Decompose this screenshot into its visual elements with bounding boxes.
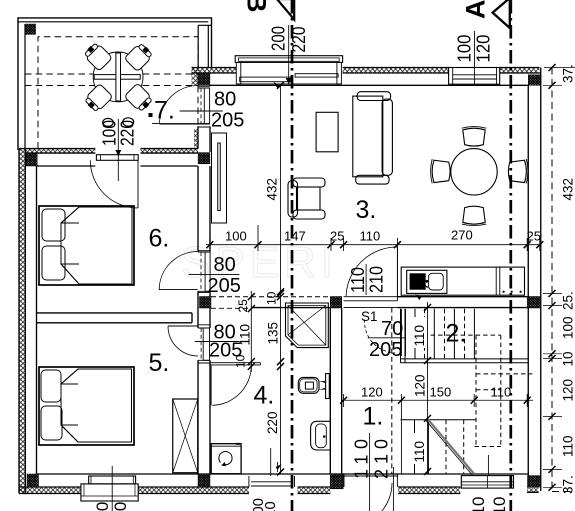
svg-text:110: 110 [348,267,368,293]
svg-text:4.: 4. [254,382,275,410]
hall dashed line [391,308,393,474]
bottom wall faces [37,473,529,475]
main interior chain line y=244.7 [206,244,541,246]
svg-text:100: 100 [455,35,475,63]
under-stair door 70/205 leaf [401,309,405,356]
left wall insulation hatch [19,149,25,494]
dining table round [451,149,497,195]
door/window fraction labels (horizontal) [208,89,404,362]
terrace balcony door 100/220 (room6) frame [96,155,138,161]
svg-text:S1: S1 [361,309,378,324]
section line B [291,0,294,511]
svg-text:120: 120 [413,374,428,397]
entrance door swing (outside) [348,483,392,511]
stair upper flight frame [401,309,406,363]
white knockouts for stair dim texts [409,317,425,348]
toilet [298,374,329,399]
vertical chain x=247 [250,291,252,372]
svg-text:135: 135 [266,322,281,345]
stair upper treads dashed [425,309,465,359]
svg-text:80: 80 [214,89,236,111]
terrace-room6 wall insulation hatch [25,149,95,154]
svg-text:110: 110 [412,441,427,463]
svg-text:5.: 5. [149,349,170,377]
svg-text:110: 110 [412,325,427,347]
stair upper treads solid [415,309,474,359]
bed room 6 [39,206,134,285]
section line A [509,0,512,511]
svg-text:A: A [461,0,491,19]
columns (dark) [26,73,541,489]
label arrows (small) [115,78,421,470]
living room interior top face [210,84,528,86]
wall living/hall: bathroom part (top dashed) [211,296,330,298]
svg-text:2.: 2. [446,320,467,348]
svg-text:110: 110 [238,324,253,346]
washing machine [211,443,241,474]
chain dims rotated small [234,291,428,462]
svg-text:110: 110 [491,385,512,400]
dining chairs [431,127,528,226]
terrace/room6 dividing wall faces [19,148,198,150]
terrace dashed floor edge rect [38,37,198,149]
bathroom door 80/205: wall stub, open leaf and swing [210,363,260,365]
top wall insulation hatch [19,68,539,494]
svg-text:220: 220 [289,27,309,53]
bed room 5 [39,367,134,445]
slider frames [236,62,241,84]
sofa [353,92,393,184]
svg-text:220: 220 [265,411,280,434]
svg-text:110: 110 [352,439,372,479]
column bottom-right [528,476,541,488]
terrace door 80/205 in spine wall [198,86,210,127]
column bottom bath [330,475,343,489]
bathroom window bottom [249,476,295,487]
svg-text:210: 210 [372,439,392,479]
two small ellipses below terrace chairs [103,118,114,126]
terrace parapet right lines [198,25,211,67]
right outer chain x=557 [543,68,575,488]
svg-text:10: 10 [469,497,488,511]
bottom wall insulation hatch [19,487,81,494]
hall chain y=400.25 [341,399,533,401]
window 100/120 top right [449,68,500,85]
vertical 432/220 line x=280.5 [280,85,282,474]
column mid spine [200,297,212,309]
svg-text:150: 150 [430,385,452,400]
svg-text:432: 432 [561,178,575,201]
shower [286,303,329,348]
svg-text:432: 432 [265,178,280,201]
svg-text:205: 205 [211,110,244,132]
stair window bottom [461,476,513,489]
svg-text:120: 120 [474,35,494,63]
svg-text:210: 210 [367,266,387,293]
svg-text:110: 110 [561,435,575,457]
wall between rooms 6 and 5 [37,313,193,323]
room6 door 80/205 [198,251,210,293]
roof overhang dashed [552,68,575,492]
door label leaders [112,25,488,511]
svg-text:100: 100 [100,120,120,146]
svg-text:205: 205 [369,339,402,361]
living-hall door 110/210 swing [346,247,397,296]
svg-text:10: 10 [490,497,509,511]
svg-text:10: 10 [265,291,279,305]
room5 door 80/205 [198,325,210,363]
section triangle A [493,0,510,28]
coffee table [316,112,338,152]
top wall face lines [192,67,540,69]
svg-text:147: 147 [284,229,306,244]
radiator living room [212,133,227,223]
terrace door side insulation [194,129,198,150]
svg-text:70: 70 [381,318,403,340]
svg-text:100: 100 [93,502,112,511]
column bottom spine [198,474,210,487]
svg-text:200: 200 [269,26,289,51]
svg-text:10: 10 [262,501,279,511]
left wall lines [19,149,37,494]
wall bath/hall vertical [330,308,341,474]
terrace dashed roof lines [25,74,198,86]
svg-text:25: 25 [236,299,250,313]
dimension ticks [206,64,555,491]
right outer chain rotated [561,64,575,494]
slider panels [295,74,338,77]
column house top-left corner [26,154,37,167]
terrace parapet inner top line [18,21,208,23]
svg-text:7.: 7. [154,96,175,124]
svg-text:B: B [242,0,272,13]
room6 balcony door swing [90,160,138,208]
svg-text:100: 100 [561,316,575,339]
svg-text:100: 100 [111,502,130,511]
room5 window sill [81,484,138,501]
svg-text:205: 205 [208,275,241,297]
kitchen counter [401,267,524,295]
stair void dashed rect [431,335,501,446]
armchair [288,178,325,219]
door 110/210 threshold [344,297,398,308]
svg-text:25.: 25. [561,291,575,310]
sink unit [407,270,447,293]
svg-text:25: 25 [330,229,344,244]
svg-text:120: 120 [361,385,383,400]
right wall lines [528,68,541,492]
column terrace/room6/living junction [198,153,210,164]
chain dims horizontal [225,228,541,400]
svg-text:270: 270 [451,228,473,243]
terrace outer parapet top line [18,18,212,150]
svg-text:SPERI: SPERI [181,238,338,287]
svg-text:120: 120 [561,379,575,402]
svg-text:110: 110 [360,229,381,244]
entrance door opening [343,475,398,477]
column living top-right [528,75,541,86]
bottom cut-off rotated dims [93,497,509,511]
stair break diagonal [427,418,474,474]
column bottom-left [27,474,39,487]
svg-text:10: 10 [561,351,575,366]
svg-text:220: 220 [118,120,138,146]
window room5 bottom [89,476,136,484]
column mid bath/hall [330,297,341,309]
terrace chairs (4, rotated) [82,41,154,113]
svg-text:37.: 37. [561,475,575,494]
wardrobe room5 [173,399,198,473]
svg-text:3.: 3. [356,196,377,224]
section triangle B [277,0,294,20]
terrace parapet inner left line [24,24,26,149]
column mid right [527,297,541,309]
svg-text:25: 25 [527,229,541,244]
column living top-left [198,73,210,85]
svg-text:80: 80 [214,254,236,276]
svg-text:6.: 6. [149,225,170,253]
column terrace top-left [25,24,35,34]
wall living/hall right segment [397,297,527,308]
svg-text:1.: 1. [363,403,384,431]
terrace table cross [93,52,143,102]
rotated door/window labels [100,26,494,479]
svg-text:10: 10 [234,354,248,368]
svg-text:37.: 37. [561,64,575,83]
stair lower flight [401,419,477,421]
svg-text:100: 100 [225,229,247,244]
stairs vertical chain x=427.5 [427,302,429,474]
washbasin [311,421,331,450]
balcony sliding door 200/220 outer sill [235,56,342,63]
spine wall x198-210 segments [198,85,210,86]
